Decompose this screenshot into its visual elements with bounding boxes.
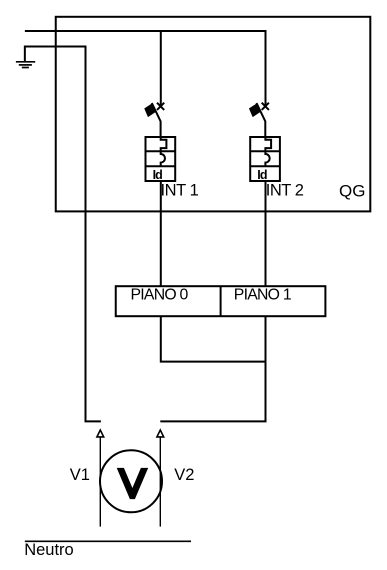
svg-text:PIANO 1: PIANO 1 <box>234 287 292 304</box>
svg-text:Neutro: Neutro <box>24 541 74 559</box>
svg-text:V2: V2 <box>174 466 194 484</box>
svg-text:PIANO 0: PIANO 0 <box>131 287 189 304</box>
svg-text:QG: QG <box>339 181 365 200</box>
svg-text:V1: V1 <box>70 466 90 484</box>
svg-text:INT 2: INT 2 <box>266 181 304 199</box>
svg-text:Id: Id <box>257 168 267 182</box>
svg-text:Id: Id <box>153 168 163 182</box>
svg-text:INT 1: INT 1 <box>161 182 199 200</box>
